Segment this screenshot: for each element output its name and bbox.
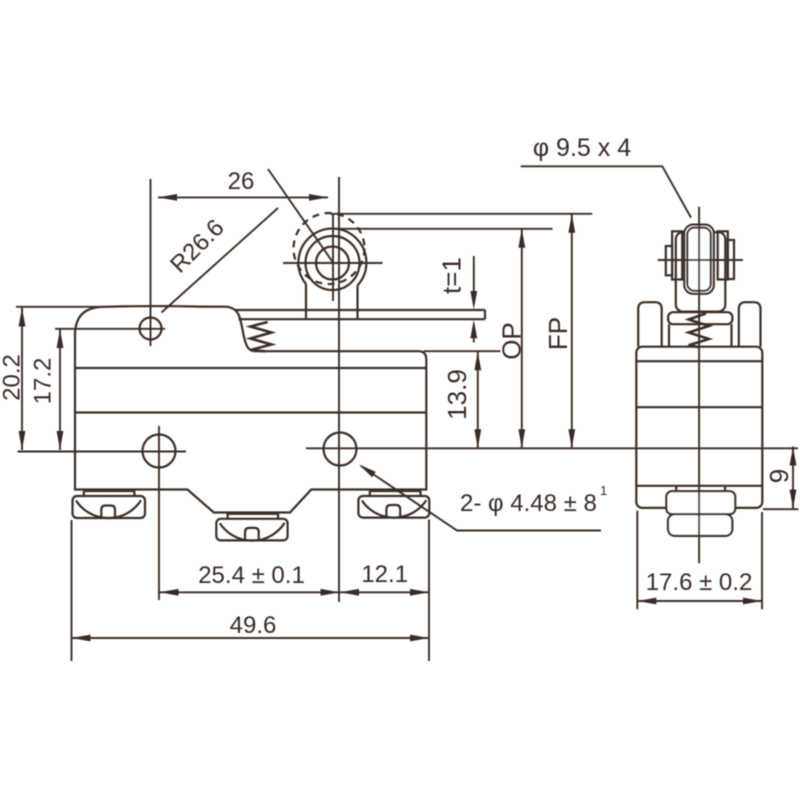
svg-text:t=1: t=1 <box>437 257 467 294</box>
side view: lower nut <box>668 514 732 536</box>
svg-text:17.6 ± 0.2: 17.6 ± 0.2 <box>646 569 753 596</box>
side view: terminal tab left <box>675 486 677 491</box>
front view: switch body outline <box>75 306 426 512</box>
side view: fork outline <box>676 232 726 311</box>
side view: fork left outer tab <box>666 246 672 275</box>
dimension 13.9 line <box>477 351 479 448</box>
side view: body outline <box>636 347 762 508</box>
front view: roller horizontal crosshair <box>283 262 383 264</box>
front view: roller vertical crosshair <box>332 214 334 301</box>
front view: left terminal clamp notch <box>101 506 115 518</box>
front view: roller middle circle <box>306 236 360 290</box>
extension line: mounting reference line to the right <box>306 447 798 449</box>
front view: internal horizontal line upper <box>75 367 426 369</box>
svg-text:2- φ 4.48 ± 8: 2- φ 4.48 ± 8 <box>460 490 597 517</box>
svg-text:1: 1 <box>600 483 607 498</box>
extension line: long vertical through roller and right hole <box>338 177 340 602</box>
dimension OP line <box>521 229 523 448</box>
front view: center terminal screw slot arc <box>220 523 285 541</box>
leader line to roller center <box>268 169 333 263</box>
dimension 9 line <box>792 447 794 509</box>
dimension 26 line <box>158 196 328 198</box>
front view: lever pivot hole <box>140 318 162 340</box>
front view: roller free-position dashed circle <box>294 213 365 284</box>
svg-text:13.9: 13.9 <box>442 369 472 420</box>
dimension 12.1 line <box>340 591 429 593</box>
R26.6 leader line <box>162 208 279 313</box>
extension line: dim 49.6 left <box>71 520 73 661</box>
leader for hole callout <box>361 466 601 531</box>
dimension 17.6 line <box>637 600 762 602</box>
side view: fork right inner tab <box>718 231 728 279</box>
side view: lever bar <box>668 312 732 324</box>
extension line: hole-center horizontal left (dims 20.2/17.2 bottom) <box>18 451 187 453</box>
front view: left terminal screw slot arc <box>76 500 141 518</box>
svg-text:25.4 ± 0.1: 25.4 ± 0.1 <box>198 562 305 589</box>
side view: plunger block left side <box>668 324 670 347</box>
front view: internal horizontal line lower <box>75 411 426 413</box>
side view: right shoulder <box>739 302 761 347</box>
side view: left shoulder <box>638 302 662 347</box>
extension line: OP reference top <box>336 228 553 230</box>
dimension 17.2 line <box>59 329 61 450</box>
extension line: pivot horizontal (dim 17.2 top) <box>55 328 165 330</box>
side view: internal line 1 <box>636 360 762 362</box>
svg-text:R26.6: R26.6 <box>165 214 229 278</box>
front view: right mounting hole <box>324 433 357 466</box>
svg-text:49.6: 49.6 <box>230 612 277 639</box>
side view: roller horizontal crosshair <box>658 259 743 261</box>
svg-text:9: 9 <box>764 469 794 483</box>
dimension t=1 upper arrow <box>473 256 475 293</box>
front view: left mounting hole <box>143 435 176 468</box>
side view: upper nut <box>666 491 735 514</box>
front view: roller outer circle <box>298 229 366 286</box>
front view: lever top edge <box>235 309 485 311</box>
front view: lever bottom edge <box>239 318 486 320</box>
dimension 17.6 extension left <box>636 511 638 610</box>
side view: center vertical line <box>698 207 700 563</box>
front view: right terminal screw head <box>358 496 429 518</box>
front view: roller fork right arm <box>356 286 358 320</box>
side view: internal line 2 <box>636 406 762 408</box>
extension line: FP reference top <box>330 213 592 215</box>
front view: right terminal screw slot arc <box>362 500 426 517</box>
side view: spring <box>689 314 709 348</box>
extension line: body top left (dim 20.2 top) <box>16 306 104 308</box>
front view: right terminal neck <box>370 491 421 496</box>
side view: roller outer <box>684 225 714 294</box>
phi 9.5 x 4 leader <box>521 166 691 217</box>
side view: internal line 3 <box>636 485 762 487</box>
extension line: dim 13.9 top <box>423 350 500 352</box>
svg-text:12.1: 12.1 <box>361 561 408 588</box>
front view: center terminal neck <box>228 514 279 519</box>
svg-text:17.2: 17.2 <box>30 358 57 405</box>
front view: roller fork left arm <box>305 284 307 319</box>
front view: left terminal neck <box>84 491 135 496</box>
front view: center terminal screw head <box>216 519 287 541</box>
svg-text:OP: OP <box>497 322 527 360</box>
svg-text:26: 26 <box>228 168 255 195</box>
side view: plunger block right side <box>730 324 732 347</box>
front view: roller shaft hole <box>316 247 349 280</box>
front view: lever tip <box>484 310 486 319</box>
dimension 25.4 line <box>160 591 340 593</box>
extension line: pivot vertical (dim 26 left) <box>150 179 152 346</box>
svg-text:20.2: 20.2 <box>0 354 26 401</box>
side view: fork right outer tab <box>728 240 734 279</box>
side view: fork left inner tab <box>672 231 682 279</box>
front view: simulating spring <box>250 322 271 351</box>
dimension FP line <box>571 214 573 448</box>
side view: terminal tab right <box>724 486 726 491</box>
front view: left terminal screw head <box>73 496 146 518</box>
front view: center terminal clamp notch <box>245 528 259 540</box>
dimension 20.2 line <box>21 308 23 451</box>
extension line: dim 49.6 right <box>428 520 430 662</box>
svg-text:φ 9.5 x 4: φ 9.5 x 4 <box>533 134 631 162</box>
dimension 17.6 extension right <box>761 512 763 609</box>
extension line: left hole vertical (dim 25.4 left) <box>158 426 160 600</box>
dimension t=1 lower arrow <box>473 338 475 343</box>
dimension 49.6 line <box>72 637 430 639</box>
front view: right terminal clamp notch <box>386 505 400 517</box>
side view: roller inner <box>687 228 711 291</box>
svg-text:FP: FP <box>543 317 573 350</box>
dimension 9 extension bottom <box>763 508 799 510</box>
